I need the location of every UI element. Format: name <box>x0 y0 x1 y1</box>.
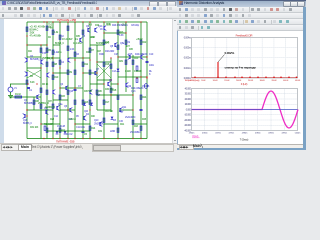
svg-text:C9: C9 <box>127 41 131 44</box>
svg-text:R25: R25 <box>142 118 147 121</box>
transistor Q9 <box>99 122 102 127</box>
resistor R31 <box>89 100 91 104</box>
wire <box>111 83 118 85</box>
junction <box>40 67 41 68</box>
resistor R51 <box>132 120 134 124</box>
svg-text:0.004m: 0.004m <box>184 36 191 39</box>
svg-text:4.970m: 4.970m <box>215 132 221 134</box>
wire <box>53 99 68 101</box>
resistor R52 <box>140 126 142 130</box>
svg-text:0.002m: 0.002m <box>184 57 191 60</box>
junction <box>26 115 27 116</box>
junction <box>117 83 118 84</box>
svg-text:R20: R20 <box>134 57 139 60</box>
transistor Q26 <box>46 73 49 78</box>
junction <box>59 67 60 68</box>
diode D2 <box>90 103 93 106</box>
wire <box>75 123 90 125</box>
resistor R12 <box>82 62 84 66</box>
svg-text:4.990m: 4.990m <box>268 132 274 134</box>
svg-text:330R: 330R <box>99 54 104 56</box>
svg-text:Q8: Q8 <box>110 45 114 48</box>
wire <box>33 97 35 110</box>
svg-text:-20.000: -20.000 <box>184 120 192 122</box>
junction <box>67 138 68 139</box>
annotation leader line <box>218 55 225 63</box>
svg-text:V1: V1 <box>14 87 17 90</box>
svg-text:100.0K: 100.0K <box>212 80 218 82</box>
resistor R3 <box>46 26 48 30</box>
junction <box>110 79 111 80</box>
resistor R24 <box>110 88 112 92</box>
svg-text:40.000: 40.000 <box>185 88 192 90</box>
wire <box>97 109 111 111</box>
wire <box>117 22 119 139</box>
svg-text:BOM4_C: BOM4_C <box>55 42 64 45</box>
wire <box>10 92 12 95</box>
svg-text:1N4148: 1N4148 <box>142 86 150 88</box>
svg-text:200.0K: 200.0K <box>236 80 242 82</box>
transistor Q6 <box>107 82 110 87</box>
junction <box>74 87 75 88</box>
fundamental 20kHz spectral line <box>217 62 219 78</box>
svg-text:400.0K: 400.0K <box>283 80 289 82</box>
resistor R13 <box>89 48 91 52</box>
svg-text:D4: D4 <box>86 113 90 116</box>
resistor R53 <box>52 104 54 108</box>
svg-text:1.5K: 1.5K <box>42 53 47 55</box>
resistor R40 <box>46 90 48 94</box>
junction <box>103 83 104 84</box>
svg-text:R28: R28 <box>50 118 55 121</box>
wire <box>111 94 133 96</box>
resistor R42 <box>59 95 61 99</box>
wire <box>41 123 60 125</box>
svg-text:R30 47R: R30 47R <box>105 88 114 91</box>
svg-text:R1 1K: R1 1K <box>15 93 21 96</box>
resistor R17 <box>117 95 119 99</box>
resistor R27 <box>40 48 42 52</box>
resistor R21 <box>59 128 61 132</box>
svg-text:C6: C6 <box>76 53 80 56</box>
transistor Q18 <box>56 106 59 111</box>
svg-text:10,4.26u: 10,4.26u <box>73 42 82 45</box>
junction <box>89 59 90 60</box>
transistor Q21 <box>140 55 143 60</box>
svg-text:50.0K: 50.0K <box>201 80 206 82</box>
junction <box>74 123 75 124</box>
svg-text:R45: R45 <box>129 49 134 51</box>
left bottom tab bar <box>0 143 177 150</box>
junction <box>59 138 60 139</box>
resistor R47 <box>103 118 105 122</box>
wire cross-coupling input pair <box>27 70 41 78</box>
svg-text:4.980m: 4.980m <box>242 132 248 134</box>
svg-text:8: 8 <box>149 73 151 76</box>
wire <box>140 22 142 139</box>
junction <box>40 123 41 124</box>
svg-text:8.2K: 8.2K <box>30 81 35 84</box>
svg-text:-10.000: -10.000 <box>184 115 192 117</box>
resistor R45 <box>89 70 91 74</box>
svg-text:C13: C13 <box>112 71 117 73</box>
junction <box>82 72 83 73</box>
junction <box>140 138 141 139</box>
junction <box>132 109 133 110</box>
junction <box>59 87 60 88</box>
voltage source V1 <box>8 87 13 92</box>
svg-text:1K: 1K <box>100 28 103 31</box>
resistor R11 <box>74 52 76 56</box>
resistor R7 <box>52 62 54 66</box>
svg-text:C10: C10 <box>149 53 154 56</box>
svg-text:F (Hz): F (Hz) <box>241 82 248 86</box>
junction <box>140 76 141 77</box>
wire <box>120 109 133 111</box>
diode D3 <box>56 131 59 134</box>
svg-text:Q7: Q7 <box>96 68 100 71</box>
transistor Q3 <box>65 86 68 91</box>
wire <box>97 94 118 96</box>
svg-text:C11 100n: C11 100n <box>76 126 86 129</box>
svg-text:0.001m: 0.001m <box>184 67 191 70</box>
junction <box>132 138 133 139</box>
svg-text:Q13: Q13 <box>131 90 136 93</box>
resistor R10 <box>67 70 69 74</box>
svg-text:Q17: Q17 <box>96 94 101 97</box>
right window <box>177 0 306 150</box>
wire cross-coupling VAS pair <box>97 64 111 78</box>
resistor R6 <box>52 50 54 54</box>
junction <box>52 57 53 58</box>
svg-text:R22: R22 <box>142 41 147 44</box>
transistor Q16 <box>94 28 97 33</box>
svg-text:220R: 220R <box>110 130 116 133</box>
svg-text:R31 10K: R31 10K <box>30 126 39 129</box>
svg-text:30.000: 30.000 <box>185 94 192 96</box>
wire <box>132 55 134 139</box>
junction <box>52 21 53 22</box>
resistor R1 <box>15 96 22 98</box>
svg-text:R14: R14 <box>91 127 96 130</box>
svg-text:1m: 1m <box>75 38 78 41</box>
resistor R22 <box>89 126 91 130</box>
svg-text:350.0K: 350.0K <box>271 80 277 82</box>
svg-text:THD(HARM(V(out))): THD(HARM(V(out))) <box>185 79 200 82</box>
wire <box>89 22 91 139</box>
transistor Q2 <box>36 95 39 100</box>
junction <box>26 44 27 45</box>
svg-text:4.995m: 4.995m <box>282 132 288 134</box>
junction <box>74 138 75 139</box>
svg-text:R42: R42 <box>28 51 33 53</box>
transistor Q22 <box>52 90 55 95</box>
wire <box>110 58 112 112</box>
wire <box>46 22 48 139</box>
resistor R50 <box>125 60 127 64</box>
resistor R28 <box>26 80 28 84</box>
svg-text:R35: R35 <box>76 36 81 38</box>
svg-text:Q12: Q12 <box>119 110 124 113</box>
svg-text:C1: C1 <box>29 89 33 92</box>
wire <box>96 45 98 110</box>
svg-text:Q5: Q5 <box>82 35 86 38</box>
svg-text:C7: C7 <box>78 85 82 88</box>
junction <box>26 35 27 36</box>
wire <box>47 57 60 59</box>
wire <box>27 56 41 58</box>
svg-text:Q6: Q6 <box>64 105 68 108</box>
transistor Q11 <box>87 28 90 33</box>
junction <box>110 94 111 95</box>
wire <box>47 130 90 132</box>
wire <box>40 45 42 139</box>
resistor R35 <box>67 26 69 30</box>
left toolbar row2 <box>0 13 177 20</box>
junction <box>103 21 104 22</box>
svg-text:R6 1K: R6 1K <box>42 83 49 86</box>
junction <box>82 57 83 58</box>
junction <box>82 138 83 139</box>
wire <box>74 22 76 139</box>
transistor Q23 <box>67 58 70 63</box>
svg-text:47u 40.8W: 47u 40.8W <box>62 38 73 41</box>
svg-text:150.0K: 150.0K <box>224 80 230 82</box>
resistor R46 <box>96 90 98 94</box>
svg-text:C4: C4 <box>61 61 65 64</box>
junction <box>46 21 47 22</box>
harmonic spectrum baseline <box>192 77 298 79</box>
svg-text:Feedback5.CIR: Feedback5.CIR <box>236 33 253 37</box>
transistor Q5 <box>94 71 97 76</box>
resistor R15 <box>117 30 119 34</box>
resistor R55 <box>33 100 35 104</box>
transistor Q17 <box>103 26 106 31</box>
junction <box>74 59 75 60</box>
resistor R19 <box>140 40 142 44</box>
svg-text:2N3906/C: 2N3906/C <box>94 123 104 126</box>
svg-text:R9: R9 <box>69 71 73 74</box>
transistor Q25 <box>125 83 128 88</box>
junction <box>59 21 60 22</box>
svg-text:4.960m: 4.960m <box>189 132 195 134</box>
wire <box>10 96 41 98</box>
wire <box>82 22 84 139</box>
wire <box>27 67 41 69</box>
junction <box>46 44 47 45</box>
left title bar <box>0 0 177 6</box>
wire <box>90 44 104 46</box>
svg-text:1m: 1m <box>91 37 94 39</box>
wire <box>104 32 126 34</box>
transistor Q19 <box>83 116 86 121</box>
svg-text:BC856_C: BC856_C <box>23 123 32 125</box>
wire <box>97 79 111 81</box>
resistor R18 <box>132 60 134 64</box>
capacitor C4 <box>74 89 77 90</box>
resistor R30 <box>74 100 76 104</box>
capacitor C out electrolytic <box>144 84 147 89</box>
svg-text:0.002%: 0.002% <box>225 51 235 55</box>
transistor Q20 <box>128 55 131 60</box>
resistor R14 <box>103 40 105 44</box>
svg-text:Q18: Q18 <box>69 91 74 93</box>
svg-text:D5: D5 <box>76 116 80 118</box>
junction <box>136 77 137 78</box>
svg-text:1N4148: 1N4148 <box>57 125 66 128</box>
resistor R36 <box>82 30 84 34</box>
schematic area <box>0 19 177 143</box>
resistor R29 <box>40 88 42 92</box>
svg-text:C5: C5 <box>84 133 88 136</box>
svg-text:Q4: Q4 <box>60 83 64 86</box>
diode D4 <box>64 131 67 134</box>
svg-text:0.22R: 0.22R <box>125 70 131 73</box>
wire <box>10 83 28 85</box>
left toolbar row1 <box>0 6 177 13</box>
wire <box>68 57 90 59</box>
wire <box>118 76 147 78</box>
svg-text:Q8a: Q8a <box>120 42 125 45</box>
transistor Q8 <box>69 108 72 113</box>
svg-text:Q9: Q9 <box>109 79 113 82</box>
wire +35V top supply rail <box>27 21 147 23</box>
junction <box>74 21 75 22</box>
wire <box>90 83 104 85</box>
junction <box>67 21 68 22</box>
svg-text:C14: C14 <box>54 116 59 118</box>
right bottom tab bar <box>177 144 303 148</box>
wire left branch <box>26 22 28 139</box>
junction <box>67 109 68 110</box>
svg-text:300.0K: 300.0K <box>260 80 266 82</box>
wire -35V bottom supply rail <box>27 138 147 140</box>
junction <box>96 61 97 62</box>
transistor Q13 <box>25 58 28 63</box>
svg-text:R8: R8 <box>54 63 58 66</box>
svg-text:Q15: Q15 <box>128 53 133 56</box>
svg-text:-30.000: -30.000 <box>184 125 192 127</box>
wire <box>133 123 147 125</box>
junction <box>89 21 90 22</box>
plot area <box>177 31 303 148</box>
resistor R44 <box>74 70 76 74</box>
resistor R33 <box>117 128 119 132</box>
capacitor C2 <box>27 87 30 88</box>
svg-text:BC546B_O: BC546B_O <box>30 58 42 61</box>
junction <box>52 72 53 73</box>
curve V(in) zero reference line <box>192 109 298 111</box>
transistor Q12 <box>114 43 117 48</box>
resistor R43 <box>67 90 69 94</box>
junction <box>140 21 141 22</box>
svg-text:5.000m: 5.000m <box>295 132 301 134</box>
junction <box>125 32 126 33</box>
svg-text:2SA1302C: 2SA1302C <box>125 116 136 119</box>
svg-text:47u: 47u <box>58 52 62 54</box>
svg-text:R11: R11 <box>84 63 89 66</box>
svg-text:R39 1K: R39 1K <box>69 119 76 121</box>
svg-text:R30: R30 <box>98 91 103 93</box>
junction <box>82 21 83 22</box>
junction <box>27 83 28 84</box>
junction <box>96 72 97 73</box>
resistor R26 <box>67 46 69 50</box>
svg-text:V(out): V(out) <box>192 134 198 138</box>
svg-text:R13: R13 <box>84 101 89 104</box>
left window <box>0 0 177 150</box>
svg-text:BC546B_O: BC546B_O <box>24 102 36 105</box>
resistor R4 <box>52 30 54 34</box>
svg-text:Q6a: Q6a <box>58 103 63 106</box>
svg-text:+35.02: +35.02 <box>136 38 143 41</box>
svg-text:R3: R3 <box>30 75 34 78</box>
svg-text:20.000: 20.000 <box>185 99 192 101</box>
svg-text:2N5551_O: 2N5551_O <box>42 57 53 60</box>
curve V(out) waveform <box>192 91 299 128</box>
resistor R2 <box>26 27 28 31</box>
resistor R49 <box>117 45 119 49</box>
svg-text:D3: D3 <box>113 119 117 122</box>
junction <box>110 57 111 58</box>
svg-text:R36 56R: R36 56R <box>84 91 93 93</box>
svg-text:1.3k: 1.3k <box>54 31 59 34</box>
junction <box>117 21 118 22</box>
junction <box>125 21 126 22</box>
svg-text:R17: R17 <box>105 101 110 104</box>
junction <box>52 138 53 139</box>
resistor R8 <box>52 75 54 79</box>
wire <box>118 56 147 58</box>
junction <box>43 138 44 139</box>
wire <box>67 22 69 139</box>
resistor R48 <box>110 64 112 68</box>
wire <box>125 22 127 92</box>
wire <box>83 72 97 74</box>
junction <box>89 138 90 139</box>
resistor R41 <box>59 35 61 39</box>
svg-text:R27: R27 <box>97 50 102 53</box>
svg-text:R5: R5 <box>48 49 52 52</box>
svg-text:R24: R24 <box>142 96 147 99</box>
wire <box>103 22 105 139</box>
svg-text:R16 240R: R16 240R <box>105 51 115 53</box>
wire <box>53 72 68 74</box>
junction <box>117 56 118 57</box>
svg-text:4.965m: 4.965m <box>202 132 208 134</box>
resistor R20 <box>103 100 105 104</box>
svg-text:2SC3281C: 2SC3281C <box>130 131 141 134</box>
svg-text:D44.C8E/JC: D44.C8E/JC <box>135 53 148 56</box>
junction <box>43 21 44 22</box>
svg-text:BAV21: BAV21 <box>121 24 128 27</box>
svg-text:4.975m: 4.975m <box>229 132 235 134</box>
wire <box>104 123 118 125</box>
transistor Q15 <box>25 72 28 77</box>
junction <box>146 77 147 78</box>
resistor R56 <box>44 126 46 130</box>
resistor R54 <box>40 104 42 108</box>
resistor R23 <box>125 40 127 44</box>
right toolbars <box>177 7 303 14</box>
wire <box>53 44 60 46</box>
svg-text:R40: R40 <box>91 116 96 118</box>
transistor Q10 <box>45 110 48 115</box>
svg-text:C8 100p: C8 100p <box>131 24 140 27</box>
svg-text:R33: R33 <box>61 96 66 98</box>
svg-text:БОЛ960.87У: БОЛ960.87У <box>96 42 109 45</box>
junction <box>146 56 147 57</box>
